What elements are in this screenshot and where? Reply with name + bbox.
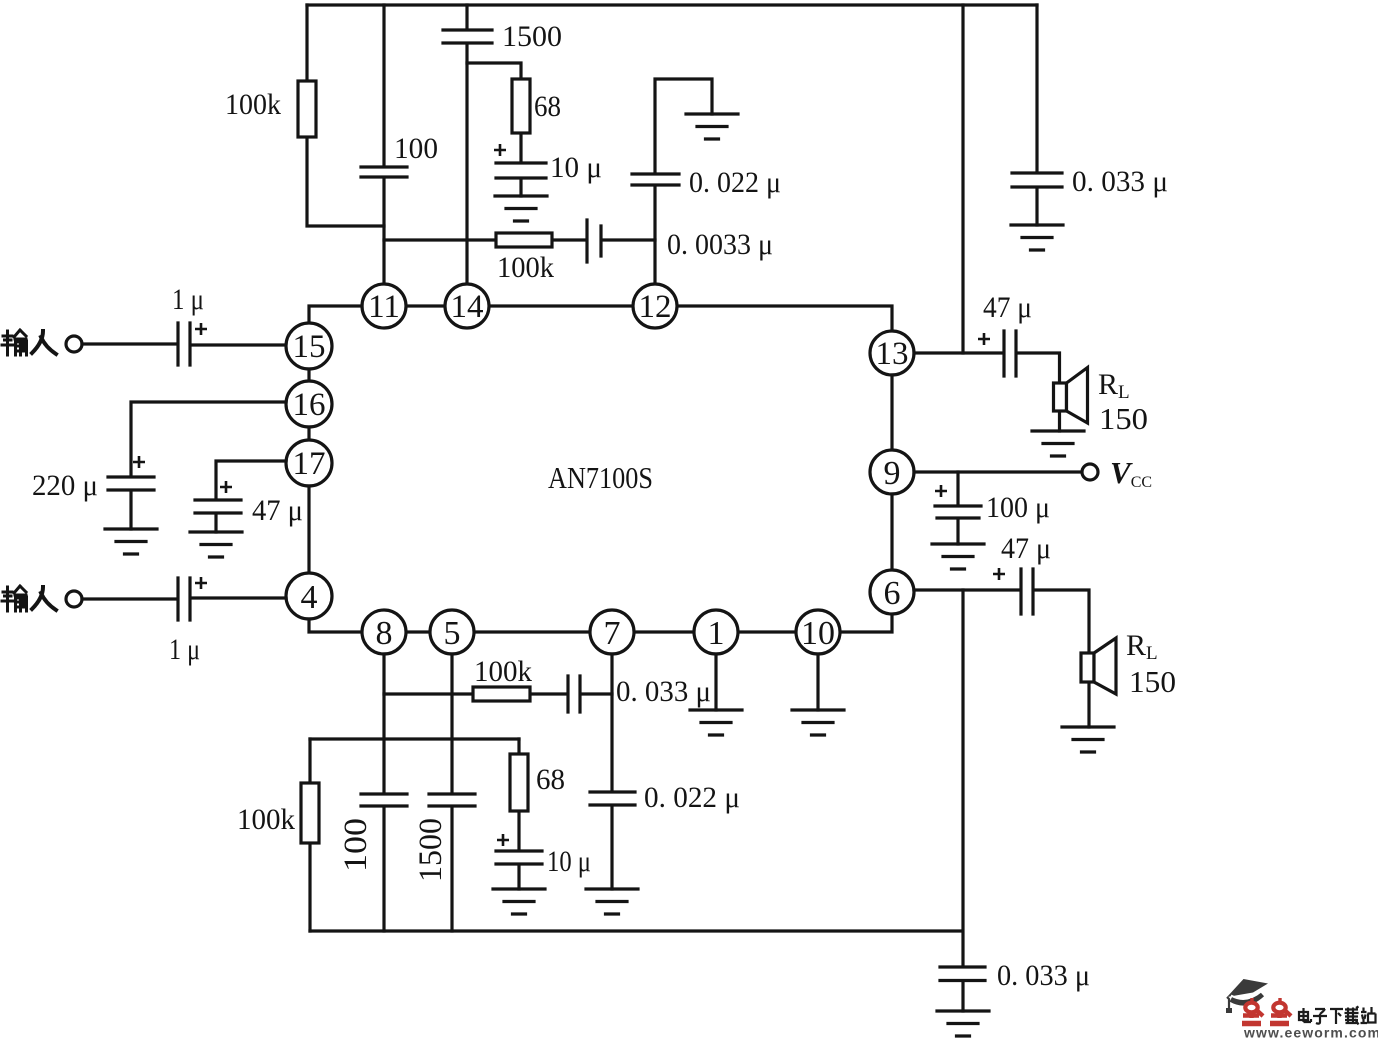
svg-text:VCC: VCC [1110,455,1152,491]
svg-text:0. 033 μ: 0. 033 μ [616,675,711,708]
svg-text:1500: 1500 [502,20,562,53]
svg-text:11: 11 [368,289,400,325]
svg-text:47 μ: 47 μ [983,291,1032,324]
svg-text:100: 100 [338,818,374,872]
svg-text:1 μ: 1 μ [169,633,200,666]
svg-text:17: 17 [293,446,326,482]
svg-text:16: 16 [293,387,326,423]
svg-text:220 μ: 220 μ [32,469,98,502]
svg-text:150: 150 [1099,401,1148,436]
svg-text:10 μ: 10 μ [550,151,602,184]
svg-text:8: 8 [376,615,393,652]
svg-text:150: 150 [1129,664,1176,699]
svg-text:0. 033 μ: 0. 033 μ [1072,165,1168,198]
svg-text:100k: 100k [497,251,554,284]
svg-text:13: 13 [876,336,909,372]
svg-text:47 μ: 47 μ [1001,532,1051,565]
svg-text:68: 68 [536,763,565,796]
svg-text:0. 0033 μ: 0. 0033 μ [667,228,773,261]
svg-text:100k: 100k [225,88,281,121]
svg-text:1500: 1500 [413,818,449,882]
svg-text:AN7100S: AN7100S [548,460,653,495]
svg-text:1: 1 [708,615,725,652]
svg-text:5: 5 [444,615,461,652]
svg-text:www.eeworm.com: www.eeworm.com [1243,1025,1378,1038]
svg-text:47 μ: 47 μ [252,494,303,527]
svg-text:10 μ: 10 μ [547,845,591,878]
svg-text:100 μ: 100 μ [986,491,1050,524]
svg-text:12: 12 [639,289,672,325]
svg-text:100k: 100k [474,655,532,688]
svg-text:14: 14 [451,289,484,325]
svg-text:9: 9 [884,455,901,492]
svg-text:15: 15 [293,329,326,365]
svg-text:RL: RL [1098,368,1130,403]
svg-text:100: 100 [394,132,438,165]
svg-text:7: 7 [604,615,621,652]
svg-text:6: 6 [884,575,901,612]
svg-text:0. 033 μ: 0. 033 μ [997,959,1090,992]
svg-text:0. 022 μ: 0. 022 μ [689,166,781,199]
svg-text:1 μ: 1 μ [172,283,204,316]
svg-text:4: 4 [301,579,318,616]
svg-text:100k: 100k [237,803,295,836]
svg-text:RL: RL [1126,629,1158,664]
svg-text:0. 022 μ: 0. 022 μ [644,781,740,814]
svg-text:10: 10 [801,615,835,652]
svg-text:68: 68 [534,90,561,123]
